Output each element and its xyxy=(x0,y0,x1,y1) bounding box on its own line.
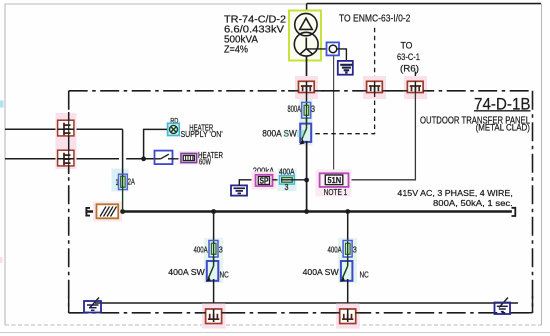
wire below connector to fuse xyxy=(306,93,308,105)
bottom boundary connector 2 halo xyxy=(336,304,360,329)
lamp riser wire xyxy=(144,129,169,158)
svg-text:NC: NC xyxy=(360,269,369,279)
wire: CT secondary down to 51N xyxy=(333,55,335,173)
switch 400A SW branch2 xyxy=(341,261,353,281)
svg-text:400A: 400A xyxy=(328,245,342,255)
boundary stubs at bottom connector 2 xyxy=(330,312,365,314)
svg-text:400A: 400A xyxy=(194,245,208,255)
boundary connector (ENMC feed) halo xyxy=(363,76,386,99)
node: branch2 on bus xyxy=(345,209,350,214)
svg-text:51N: 51N xyxy=(328,175,342,185)
earth electrode left xyxy=(84,298,101,313)
wire 1 down to control fuse (crossing wire2 with break) xyxy=(122,129,124,174)
panel boundary right (dash-dot) xyxy=(532,91,534,313)
boundary stubs at ENMC connector xyxy=(358,90,390,92)
svg-text:63-C-1: 63-C-1 xyxy=(397,52,420,62)
relay 51N halo xyxy=(316,170,352,197)
svg-text:800A: 800A xyxy=(288,104,302,114)
fuse 400A branch1 xyxy=(209,241,218,258)
svg-text:3: 3 xyxy=(353,245,357,255)
boundary connector (incoming main) xyxy=(299,81,315,92)
earth bar (hatched box) xyxy=(97,204,119,218)
node: lamp tap on wire 2 xyxy=(141,156,146,161)
CT on transformer neutral (blue box) xyxy=(327,42,340,55)
boundary stubs at R6 connector xyxy=(399,90,431,92)
boundary connector (incoming main) halo xyxy=(295,76,318,99)
panel boundary bottom (dash-dot) xyxy=(69,312,533,314)
svg-text:SUPPLY 'ON': SUPPLY 'ON' xyxy=(181,129,224,139)
bus right end bracket xyxy=(512,208,516,216)
highlight halo behind 400A branch2 fuse/switch xyxy=(338,238,357,283)
wire CT to earth xyxy=(337,49,347,62)
wire: transformer to boundary connector xyxy=(306,56,308,82)
wire below switch to bottom connector xyxy=(213,279,215,322)
node: incoming on bus xyxy=(304,209,309,214)
highlight band behind control fuse 1 2A xyxy=(112,169,129,192)
left boundary connector halo band xyxy=(56,113,77,169)
boundary connector (63-C-1 R6) xyxy=(407,81,423,92)
switch 800A SW (blue box) xyxy=(300,124,311,142)
heater element halo xyxy=(179,151,200,165)
boundary stubs at bottom connector 1 xyxy=(196,312,231,314)
bus left end E bracket xyxy=(86,208,90,216)
wire 1 from page edge xyxy=(5,128,123,130)
transformer TR-74-C/D-2 highlight box xyxy=(289,11,321,61)
fuse 800A (green) in blue box xyxy=(302,102,311,118)
bottom boundary connector 1 xyxy=(206,309,222,324)
top wire TO ENMC-63-I/0-2 xyxy=(307,3,541,5)
surge protector SP halo xyxy=(252,172,277,190)
bottom boundary connector 1 halo xyxy=(202,304,226,329)
svg-text:(R6): (R6) xyxy=(400,63,419,73)
switch 400A SW branch1 xyxy=(207,261,219,281)
boundary corner stubs xyxy=(69,296,533,313)
wire below switch to bus xyxy=(306,141,308,212)
branch 1: wire from bus down xyxy=(213,212,215,242)
boundary connector (63-C-1 R6) halo xyxy=(404,76,427,99)
fuse 1 2A (blue box) xyxy=(119,174,128,189)
neutral wire to CT xyxy=(307,48,328,50)
svg-text:SP: SP xyxy=(260,177,269,186)
svg-text:3: 3 xyxy=(285,182,289,192)
svg-text:NOTE 1: NOTE 1 xyxy=(324,187,348,197)
left boundary connector 2 xyxy=(58,150,74,166)
relay 51N (magenta box) xyxy=(320,173,349,187)
surge arrester branch: ground symbol xyxy=(231,185,247,195)
transformer TR-74-C/D-2 xyxy=(294,13,318,56)
highlight band behind SP 400A fuse xyxy=(278,169,297,192)
earth conductor across bottom xyxy=(95,302,518,304)
svg-text:3: 3 xyxy=(311,104,315,114)
earth bar halo xyxy=(93,202,122,222)
svg-text:60W: 60W xyxy=(199,158,211,167)
scan artifact: cyan smudge left border xyxy=(0,101,4,108)
fuse 400A horizontal (cyan box) xyxy=(280,176,295,184)
svg-text:TO ENMC-63-I/0-2: TO ENMC-63-I/0-2 xyxy=(339,13,411,25)
wire below switch to bottom connector xyxy=(347,279,349,322)
svg-text:415V AC, 3 PHASE, 4 WIRE,: 415V AC, 3 PHASE, 4 WIRE, xyxy=(397,188,512,198)
svg-text:Z=4%: Z=4% xyxy=(224,44,248,55)
dashed feeder from ENMC: above connector xyxy=(374,28,376,81)
node: heater riser on bus xyxy=(120,209,125,214)
wire from R6 connector down to 51N output xyxy=(349,93,416,180)
boundary stubs at main connector xyxy=(288,90,324,92)
svg-text:800A, 50kA, 1 sec.: 800A, 50kA, 1 sec. xyxy=(433,198,513,208)
fuse 400A branch2 xyxy=(343,241,352,258)
node: branch1 on bus xyxy=(211,209,216,214)
svg-text:(METAL CLAD): (METAL CLAD) xyxy=(476,123,530,133)
bus 415V xyxy=(86,210,512,212)
indicator lamp (cyan box) xyxy=(168,123,180,135)
wire 2 from page edge (break at crossing) xyxy=(5,158,119,160)
highlight band behind lamp xyxy=(166,122,181,138)
svg-text:3: 3 xyxy=(219,245,223,255)
highlight halo behind 400A branch1 fuse/switch xyxy=(204,238,223,283)
scan artifact: teal smudge near 800A SW xyxy=(297,130,305,137)
earth symbol below CT xyxy=(338,61,353,75)
wire ground up and right to SP xyxy=(239,180,255,186)
branch 2: wire from bus down xyxy=(347,212,349,242)
node: SP tap junction xyxy=(304,178,309,183)
earth electrode right xyxy=(495,298,511,315)
highlight band behind main incoming chain xyxy=(300,94,313,146)
boundary stubs at left connectors xyxy=(68,112,70,174)
left boundary connector 1 xyxy=(58,120,74,136)
dashed interlock: connector down then left to 800A SW xyxy=(312,93,375,134)
panel boundary left (dash-dot) xyxy=(68,91,70,313)
boundary connector (ENMC feed) xyxy=(367,81,383,92)
wire from (R6) to connector xyxy=(414,72,416,82)
svg-text:TO: TO xyxy=(401,41,413,51)
panel boundary top (dash-dot) xyxy=(69,90,533,92)
heater switch (blue box) xyxy=(155,151,173,165)
svg-text:400A SW: 400A SW xyxy=(303,267,339,277)
svg-text:NC: NC xyxy=(220,269,229,279)
svg-text:2A: 2A xyxy=(128,177,135,187)
wire SP to 400A fuse xyxy=(273,179,282,181)
surge protector SP (magenta box) xyxy=(256,175,273,186)
bottom boundary connector 2 xyxy=(340,309,356,324)
svg-text:800A SW: 800A SW xyxy=(262,129,297,139)
heater element 60W (purple box) xyxy=(181,153,197,162)
wire: top line down to transformer xyxy=(306,4,308,15)
svg-text:400A SW: 400A SW xyxy=(168,267,205,277)
